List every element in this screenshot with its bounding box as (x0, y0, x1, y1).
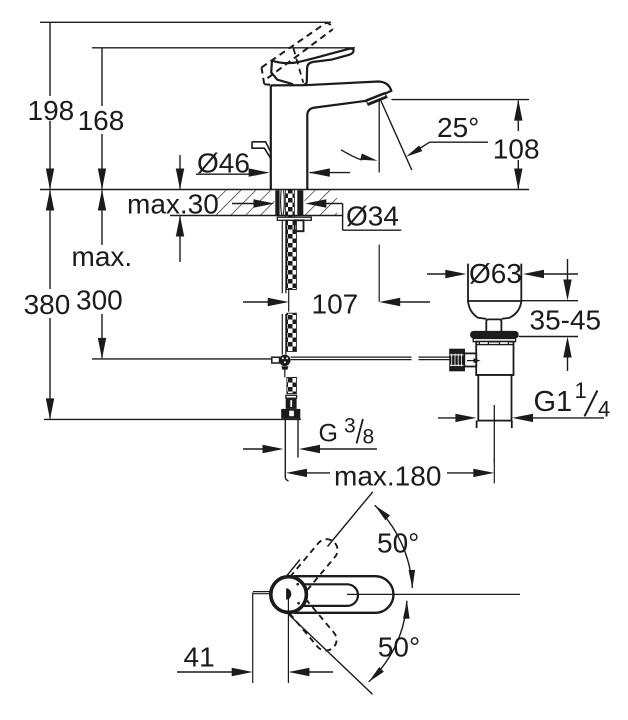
pop-up ball joint (279, 355, 290, 366)
plan lever rotated down (dashed) (289, 599, 341, 655)
dimension 41 (177, 668, 333, 676)
plan pivot mark (286, 588, 291, 599)
svg-text:50°: 50° (378, 632, 420, 663)
deck top line (40, 189, 529, 191)
35-45 reference bottom (519, 336, 578, 338)
svg-text:380: 380 (24, 289, 71, 320)
tailpiece flare (477, 421, 512, 429)
extension line max300 bottom (92, 358, 272, 360)
25deg leader (406, 142, 488, 157)
aerator (366, 93, 387, 106)
hose braid segment 1 (287, 220, 297, 289)
svg-text:198: 198 (28, 95, 75, 126)
plan centerline (347, 593, 520, 595)
extension line spout height (392, 99, 530, 101)
50deg arc upper (375, 505, 413, 588)
plan body circle (271, 577, 307, 613)
water stream reference line (378, 99, 380, 172)
dimension max180 (286, 469, 494, 477)
valve body inner line (476, 344, 513, 346)
35-45 reference top (521, 300, 578, 302)
max30 leader arrow (232, 199, 275, 207)
extension line 380 bottom (44, 418, 301, 420)
svg-text:G: G (319, 420, 338, 448)
faucet body left edge (270, 85, 272, 189)
25deg slant line (380, 99, 412, 170)
svg-text:1: 1 (575, 378, 587, 403)
valve body bottom step (476, 374, 513, 376)
hose nut upper (286, 398, 297, 409)
label G 3/8 (319, 415, 375, 449)
label G1 1/4 (534, 378, 611, 421)
svg-text:108: 108 (493, 133, 540, 164)
plan lever inner outline (303, 584, 358, 606)
shank threaded rod (286, 190, 295, 217)
41 extension left (252, 593, 254, 684)
Ø46 leader and arrows (196, 168, 350, 176)
svg-text:max.180: max.180 (334, 460, 441, 491)
rod left attachment (272, 357, 280, 363)
dimension Ø34 leader (305, 199, 401, 230)
plan lever outer outline (294, 576, 394, 613)
waste flange funnel (468, 264, 521, 301)
svg-text:168: 168 (78, 105, 125, 136)
107 extension left (288, 290, 290, 312)
pop-up rod lower (282, 314, 286, 355)
hose hex nut (281, 409, 300, 419)
spout top (305, 82, 391, 101)
svg-text:Ø63: Ø63 (469, 258, 522, 289)
extension line 168 top (92, 47, 355, 49)
body left hook detail (252, 142, 271, 159)
svg-text:41: 41 (184, 642, 215, 673)
deck hatch right (305, 190, 338, 215)
svg-text:107: 107 (312, 288, 359, 319)
clamp screw pin (467, 360, 474, 362)
valve body (476, 342, 513, 375)
plan detail dots (296, 583, 299, 586)
50deg arc lower (369, 601, 407, 682)
lever handle raised (dashed) (262, 23, 333, 86)
svg-text:Ø34: Ø34 (346, 201, 399, 232)
drain centerline (493, 405, 495, 462)
lever handle (down position) (272, 49, 354, 86)
rod clamp knurled nut (450, 349, 464, 370)
svg-text:300: 300 (76, 284, 123, 315)
gasket washer (473, 339, 515, 342)
svg-text:35-45: 35-45 (530, 304, 602, 335)
ball joint lower wedge (281, 366, 288, 370)
plan lever rotated up (dashed) (290, 535, 342, 591)
dimension max300 line (98, 190, 106, 359)
faucet body right edge and spout underside (307, 101, 367, 190)
svg-text:25°: 25° (437, 112, 479, 143)
rod below ball (284, 370, 286, 378)
41 extension right (287, 599, 289, 684)
G1 1/4 arrows (438, 414, 604, 422)
rod clamp stem (464, 353, 476, 366)
50deg line upper (287, 492, 373, 576)
linkage rod segment 2 (419, 357, 451, 360)
hose braid segment 2 (287, 313, 297, 351)
dimension max30 line (176, 155, 184, 262)
shank slot curves (281, 190, 285, 215)
dimension 198 line (46, 22, 54, 189)
valve body slots (479, 342, 508, 345)
dimension 380 line (46, 190, 54, 420)
hose crimp ring (286, 395, 297, 398)
dimension 35-45 (563, 259, 571, 371)
svg-text:50°: 50° (377, 528, 419, 559)
rubber gasket (470, 331, 518, 339)
valve threaded section (478, 375, 511, 421)
svg-text:8: 8 (363, 426, 375, 449)
dimension 108 line (514, 100, 522, 190)
shank right wall (297, 190, 303, 215)
dimension 107 arrows (243, 298, 430, 306)
50deg line lower (288, 614, 373, 695)
shank left wall (275, 190, 279, 215)
deck bottom line (170, 215, 343, 217)
plan front stub (253, 592, 271, 594)
dimension 168 line (98, 48, 106, 190)
25deg arc arrow (341, 150, 362, 160)
hose braid segment 3 (287, 377, 297, 393)
pop-up rod upper (282, 220, 286, 293)
hose nut block (295, 220, 304, 231)
deck hatch left (215, 190, 275, 215)
svg-text:G1: G1 (534, 386, 573, 418)
svg-text:Ø46: Ø46 (197, 148, 250, 179)
linkage rod segment 1 (291, 357, 412, 360)
valve stem knob (486, 319, 501, 331)
funnel taper (468, 301, 521, 319)
supply tube below nut (285, 419, 298, 481)
107 extension right (378, 245, 380, 302)
extension line 198 top (40, 21, 331, 23)
max180 right extension (493, 460, 495, 483)
Ø63 arrows (427, 270, 578, 278)
svg-text:3: 3 (344, 415, 356, 438)
svg-text:max.: max. (72, 241, 133, 272)
faucet body top (271, 84, 305, 86)
svg-text:max.30: max.30 (127, 189, 219, 220)
mounting washer (277, 217, 311, 220)
svg-text:4: 4 (598, 396, 610, 421)
G 3/8 arrows (243, 445, 377, 453)
